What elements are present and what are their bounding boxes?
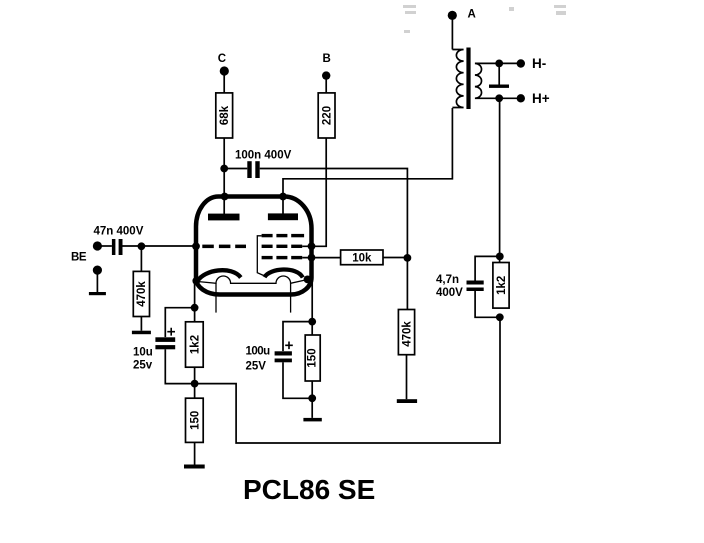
resistor 1k2 zobel (493, 263, 509, 309)
svg-text:100n 400V: 100n 400V (235, 150, 292, 162)
node input junction (138, 242, 146, 250)
ground heater (489, 63, 509, 88)
svg-text:150: 150 (307, 348, 319, 367)
capacitor 47n 400V (94, 225, 144, 255)
node 10k/470k junction (404, 254, 412, 262)
terminal B (322, 53, 331, 80)
wire 68k to junction and triode anode (223, 138, 225, 214)
wire junction to 100n (224, 168, 247, 170)
heater filament (198, 276, 307, 283)
ground BE (89, 274, 106, 295)
wire 150 right to bottom node (311, 381, 313, 418)
ground under 150 left (184, 465, 205, 469)
wire 470k to ground (406, 355, 408, 400)
pentode cathode (265, 269, 303, 277)
wire node to 470k (406, 258, 408, 310)
node H- junction (495, 60, 503, 68)
wire H+ line (499, 97, 521, 99)
node junction 68k/100n/anode (220, 165, 228, 173)
triode grid g dashes (202, 245, 246, 249)
pentode grid g3 dashes (262, 234, 305, 237)
node g2 exit on envelope (308, 242, 316, 250)
tube PCL86 envelope (196, 197, 312, 295)
svg-text:A: A (468, 9, 476, 21)
wire H+ down to zobel (499, 98, 501, 262)
svg-text:47n 400V: 47n 400V (94, 225, 144, 237)
resistor 150 left (186, 398, 204, 442)
node triode cathode junction (191, 304, 199, 312)
svg-text:C: C (218, 53, 226, 65)
node H+ junction (495, 94, 503, 102)
svg-text:1k2: 1k2 (496, 276, 508, 295)
terminal H- (517, 56, 547, 71)
svg-text:25v: 25v (133, 360, 153, 372)
wire 470k left to ground (140, 317, 142, 331)
svg-text:220: 220 (321, 106, 333, 125)
transformer T1 primary winding (452, 50, 463, 108)
capacitor 4,7n 400V (436, 274, 484, 299)
svg-text:68k: 68k (219, 105, 231, 125)
wire 100n to grid network (260, 169, 408, 258)
node anode pin triode on envelope (221, 193, 229, 201)
svg-text:150: 150 (189, 411, 201, 430)
node pentode cathode junction (308, 318, 316, 326)
node cathode exit bottom-left (192, 277, 200, 285)
wire pentode anode to transformer (283, 108, 452, 214)
svg-text:25V: 25V (246, 361, 267, 373)
wire 10u bottom to node (165, 349, 194, 383)
wire 47n to grid junction to tube (123, 245, 195, 247)
ground under 150 right (303, 418, 321, 422)
wire pentode cathode down (311, 279, 313, 336)
wire B to R 220 (325, 80, 327, 93)
triode cathode (198, 270, 241, 281)
wire junction to 470k left (140, 246, 142, 271)
wire BE to 47n (97, 245, 112, 247)
svg-text:4,7n: 4,7n (436, 274, 459, 286)
node g1 exit on envelope (308, 254, 316, 262)
wire 1k2 to bottom node (194, 367, 196, 398)
svg-text:BE: BE (71, 252, 87, 264)
svg-text:100u: 100u (246, 346, 271, 358)
node zobel top (496, 253, 504, 261)
svg-text:B: B (323, 53, 331, 65)
wire A to transformer primary top (451, 19, 453, 50)
terminal H+ (517, 91, 550, 106)
svg-text:H-: H- (532, 56, 546, 71)
capacitor 100n 400V (235, 150, 292, 179)
wire g1 to 10k (302, 257, 340, 259)
wire H- line (499, 62, 521, 64)
wire 220 to screen grid g2 (302, 138, 326, 246)
svg-text:PCL86 SE: PCL86 SE (243, 474, 375, 505)
wire g3 to cathode internal (257, 236, 265, 276)
transformer T1 secondary winding (475, 63, 499, 98)
wire 150 left to ground (194, 442, 196, 464)
ground under 470k right (397, 399, 417, 403)
resistor 470k right (398, 310, 414, 355)
svg-text:10k: 10k (352, 253, 372, 265)
heater pin stub left (215, 283, 217, 312)
svg-text:470k: 470k (136, 281, 148, 307)
resistor 1k2 left (186, 322, 204, 367)
svg-text:470k: 470k (401, 321, 413, 347)
resistor 68k (216, 93, 233, 138)
pentode anode plate (268, 213, 298, 220)
node zobel bottom (496, 313, 504, 321)
wire feedback bottom rail (195, 317, 500, 443)
node pentode cathode bottom junction (308, 394, 316, 402)
resistor 220 (318, 93, 335, 138)
terminal BE ground post (93, 266, 102, 275)
resistor 470k left (133, 271, 149, 316)
wire triode cathode down (194, 281, 196, 322)
node anode pin pentode on envelope (279, 193, 287, 201)
wire cathode node to 10u (165, 308, 194, 337)
capacitor 10u 25v electrolytic (133, 328, 175, 372)
resistor 10k (341, 250, 383, 265)
svg-text:1k2: 1k2 (189, 335, 201, 354)
node cathode exit bottom-right (304, 276, 312, 284)
wire 100u bottom to node (283, 362, 312, 398)
wire zobel top to 4,7n (475, 256, 500, 280)
capacitor 100u 25V electrolytic (246, 342, 293, 373)
terminal BE input (71, 241, 102, 263)
transformer T1 core (466, 48, 470, 110)
resistor 150 right (305, 335, 320, 381)
node triode cathode bottom junction (191, 380, 199, 388)
terminal C (218, 53, 229, 76)
svg-text:H+: H+ (532, 91, 550, 106)
triode anode plate (208, 214, 240, 221)
node grid exit left on envelope (192, 242, 200, 250)
wire cathode node to 100u (283, 322, 312, 352)
wire C to R 68k (223, 75, 225, 93)
node A terminal (448, 9, 476, 21)
heater pin stub right (290, 283, 292, 312)
svg-text:400V: 400V (436, 287, 463, 299)
wire 10k to node (383, 257, 407, 259)
ground under 470k left (132, 331, 151, 335)
pentode grid g2 dashes (262, 245, 303, 248)
pentode grid g1 dashes (262, 256, 303, 259)
wire 4,7n bottom to node (475, 291, 500, 317)
svg-text:10u: 10u (133, 346, 153, 358)
